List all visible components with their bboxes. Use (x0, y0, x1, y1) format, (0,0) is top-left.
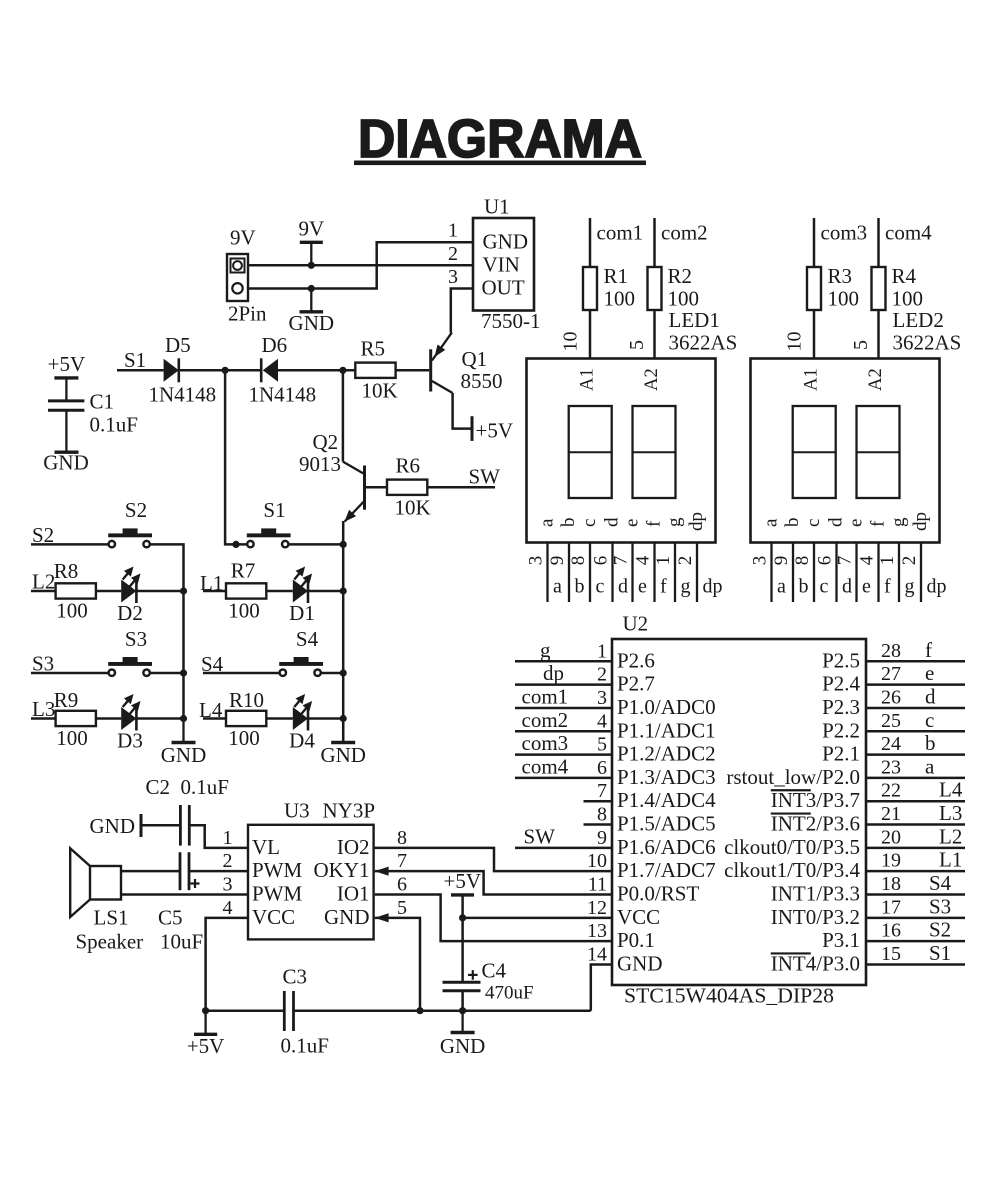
junction +5V rail left end (202, 1007, 209, 1014)
U2 right pin wires (866, 661, 965, 964)
LED1 pin labels a b c d e f g dp (553, 576, 723, 598)
wire R10 to D4 (266, 717, 293, 720)
wire R1 to pin10 (589, 310, 592, 359)
LED1 digit 2 (633, 406, 676, 498)
svg-text:D3: D3 (117, 729, 143, 753)
wire R8 to D2 (96, 590, 121, 593)
svg-text:GND: GND (617, 951, 663, 975)
wire +5V rail left segment (206, 1009, 285, 1012)
LED1 segment letters inside (537, 512, 708, 531)
svg-text:R6: R6 (396, 454, 421, 478)
svg-text:dp: dp (686, 512, 707, 531)
diode D6 1N4148 (249, 333, 317, 407)
diode D5 1N4148 (149, 333, 217, 407)
svg-text:15: 15 (881, 943, 901, 965)
svg-text:3: 3 (526, 556, 547, 566)
wire U3 VCC pin4 to +5V rail (206, 918, 248, 1011)
svg-text:LED2: LED2 (893, 308, 944, 332)
svg-text:20: 20 (881, 826, 901, 848)
svg-text:3622AS: 3622AS (893, 331, 962, 355)
svg-text:R2: R2 (668, 264, 693, 288)
svg-text:c: c (803, 519, 824, 527)
svg-text:A1: A1 (578, 368, 598, 391)
power +5V bottom left (187, 1011, 225, 1058)
wire S3 to button (31, 672, 109, 675)
junction 9V node (308, 262, 315, 269)
svg-text:10K: 10K (395, 496, 431, 520)
svg-text:14: 14 (587, 943, 607, 965)
svg-text:D4: D4 (289, 729, 315, 753)
wire R6 to SW (427, 486, 495, 489)
resistor R9 100 (54, 688, 96, 750)
transistor Q2 9013 (299, 430, 366, 522)
svg-text:5: 5 (850, 340, 872, 350)
svg-text:8: 8 (568, 556, 589, 566)
junction node D5-D6 (222, 367, 229, 374)
svg-text:PWM: PWM (252, 858, 303, 882)
svg-text:P2.1: P2.1 (822, 742, 860, 766)
svg-text:PWM: PWM (252, 882, 303, 906)
svg-text:6: 6 (815, 556, 836, 566)
svg-text:100: 100 (604, 287, 636, 311)
svg-text:P1.2/ADC2: P1.2/ADC2 (617, 742, 716, 766)
svg-text:C2: C2 (146, 775, 171, 799)
wire L1 to R7 (203, 590, 226, 593)
svg-text:26: 26 (881, 686, 901, 708)
svg-text:8550: 8550 (461, 369, 503, 393)
svg-text:1: 1 (877, 556, 898, 566)
wire R3 to pin10 (813, 310, 816, 359)
svg-text:b: b (925, 731, 936, 755)
svg-text:d: d (602, 517, 623, 527)
svg-text:470uF: 470uF (485, 983, 534, 1004)
junction U3 GND at rail (416, 1007, 423, 1014)
svg-text:A1: A1 (802, 368, 822, 391)
wire S3 button to bus (150, 672, 184, 675)
svg-text:5: 5 (626, 340, 648, 350)
svg-text:3: 3 (597, 687, 607, 709)
svg-text:C4: C4 (482, 959, 507, 983)
wire D5 node down to S1 button (225, 370, 247, 544)
svg-text:19: 19 (881, 850, 901, 872)
svg-text:1: 1 (597, 640, 607, 662)
U3 pin7 input arrow (375, 867, 389, 876)
wire D3 to bus (136, 717, 183, 720)
svg-text:LS1: LS1 (94, 906, 129, 930)
svg-text:S2: S2 (929, 918, 951, 942)
U3 right pin numbers 8 7 6 5 (397, 827, 407, 919)
svg-text:C1: C1 (90, 390, 115, 414)
wire R7 to D1 (266, 590, 293, 593)
switch S4 (279, 627, 323, 676)
U2 right pin numbers (881, 640, 901, 965)
svg-text:Q1: Q1 (462, 347, 488, 371)
LED2 segment letters inside (761, 512, 932, 531)
svg-text:g: g (905, 576, 915, 598)
svg-text:22: 22 (881, 780, 901, 802)
svg-text:1N4148: 1N4148 (249, 383, 317, 407)
svg-text:L2: L2 (32, 569, 55, 593)
wire rail to U2 GND pin14 (591, 964, 612, 1010)
svg-text:D2: D2 (117, 601, 143, 625)
svg-text:L1: L1 (939, 848, 962, 872)
svg-text:+5V: +5V (187, 1034, 225, 1058)
svg-text:4: 4 (857, 555, 878, 565)
junction VCC +5V (459, 914, 466, 921)
svg-text:b: b (782, 518, 803, 528)
junction L3 bus (180, 715, 187, 722)
svg-text:25: 25 (881, 710, 901, 732)
wire D6 node down to Q2 collector (342, 370, 345, 461)
svg-text:P2.5: P2.5 (822, 648, 860, 672)
svg-text:a: a (761, 518, 782, 527)
power +5V at U2 VCC (444, 869, 482, 895)
junction L1 bus (340, 587, 347, 594)
svg-text:Q2: Q2 (313, 430, 339, 454)
resistor R8 100 (54, 559, 96, 623)
svg-text:VL: VL (252, 835, 280, 859)
junction GND node (308, 285, 315, 292)
svg-text:OKY1: OKY1 (314, 858, 370, 882)
svg-text:f: f (644, 520, 665, 527)
svg-text:1: 1 (653, 556, 674, 566)
svg-text:100: 100 (892, 287, 924, 311)
svg-text:com2: com2 (522, 708, 569, 732)
wire Q1 collector to +5V (453, 393, 471, 429)
svg-text:4: 4 (223, 897, 233, 919)
wire 9V connector to U1 VIN (248, 264, 473, 267)
svg-text:c: c (925, 708, 934, 732)
capacitor C1 0.1uF (48, 390, 138, 453)
svg-text:U1: U1 (484, 195, 510, 219)
svg-text:1: 1 (223, 827, 233, 849)
svg-text:7: 7 (611, 556, 632, 566)
svg-text:INT2/P3.6: INT2/P3.6 (771, 812, 860, 836)
svg-text:9V: 9V (230, 226, 256, 250)
MCU U2 STC15W404AS_DIP28 body (612, 612, 866, 1008)
svg-text:clkout0/T0/P3.5: clkout0/T0/P3.5 (724, 835, 860, 859)
svg-text:S1: S1 (929, 941, 951, 965)
svg-text:S4: S4 (296, 627, 319, 651)
U2 INT overlines (771, 790, 811, 953)
wire L2 to R8 (31, 590, 56, 593)
svg-text:com4: com4 (885, 221, 932, 245)
LED D4 (289, 694, 315, 753)
wire C2 to U3 VL pin1 (189, 825, 248, 848)
svg-text:9: 9 (597, 827, 607, 849)
svg-text:R3: R3 (828, 264, 853, 288)
wire L4 to R10 (203, 717, 226, 720)
svg-text:INT1/P3.3: INT1/P3.3 (771, 882, 860, 906)
svg-text:P2.3: P2.3 (822, 695, 860, 719)
wire U2 pin2 net dp (515, 683, 612, 686)
wire U2 pin4 net com2 (515, 730, 612, 733)
svg-text:f: f (868, 520, 889, 527)
svg-text:10uF: 10uF (160, 930, 203, 954)
svg-text:100: 100 (828, 287, 860, 311)
svg-text:a: a (777, 576, 786, 598)
U2 right net labels (925, 638, 963, 965)
U3 right pin names (314, 835, 370, 929)
svg-text:g: g (888, 517, 909, 527)
svg-text:P1.1/ADC1: P1.1/ADC1 (617, 718, 716, 742)
svg-text:dp: dp (543, 661, 564, 685)
wire L3 to R9 (31, 717, 56, 720)
U3 left pin numbers 1 2 3 4 (223, 827, 233, 919)
svg-text:D5: D5 (165, 333, 191, 357)
capacitor C3 0.1uF (281, 965, 329, 1058)
U3 left pin names (252, 835, 303, 929)
svg-text:P1.7/ADC7: P1.7/ADC7 (617, 858, 716, 882)
svg-text:d: d (618, 576, 628, 598)
svg-text:d: d (925, 684, 936, 708)
svg-text:com4: com4 (522, 754, 569, 778)
LED D1 (289, 567, 315, 626)
resistor R4 100 (872, 264, 924, 311)
svg-text:9013: 9013 (299, 452, 341, 476)
ground GND under connector (289, 289, 335, 336)
wire R2 to pin5 (653, 310, 656, 359)
svg-text:e: e (622, 519, 643, 527)
resistor R3 100 (807, 264, 859, 311)
svg-text:e: e (846, 519, 867, 527)
svg-text:VIN: VIN (483, 253, 520, 277)
ground GND bottom (440, 1011, 486, 1058)
svg-text:Speaker: Speaker (76, 930, 144, 954)
wire U2 VCC pin12 (463, 917, 612, 920)
LED D2 (117, 567, 143, 626)
junction L2 bus (180, 587, 187, 594)
wire speaker to C5 (121, 870, 180, 873)
svg-text:GND: GND (289, 311, 335, 335)
svg-text:D1: D1 (289, 601, 315, 625)
svg-text:18: 18 (881, 873, 901, 895)
svg-text:10: 10 (587, 850, 607, 872)
label LED1 3622AS (669, 308, 738, 355)
wire R9 to D3 (96, 717, 121, 720)
wire connector GND to U1 pin1 (248, 242, 473, 288)
svg-text:+5V: +5V (444, 869, 482, 893)
wire D1 to bus (308, 590, 343, 593)
wire C4 to rail (461, 991, 464, 1011)
svg-text:12: 12 (587, 897, 607, 919)
wire S1 button to bus (288, 543, 343, 546)
svg-text:IO2: IO2 (337, 835, 370, 859)
svg-text:R8: R8 (54, 559, 79, 583)
svg-text:P2.2: P2.2 (822, 718, 860, 742)
wire U2 pin1 net g (515, 660, 612, 663)
svg-text:g: g (664, 517, 685, 527)
svg-text:VCC: VCC (617, 905, 660, 929)
svg-text:GND: GND (161, 743, 207, 767)
svg-text:g: g (681, 576, 691, 598)
svg-text:INT3/P3.7: INT3/P3.7 (771, 788, 860, 812)
svg-text:5: 5 (597, 734, 607, 756)
U2 right pin names (724, 648, 860, 975)
svg-text:P1.3/ADC3: P1.3/ADC3 (617, 765, 716, 789)
wire U2 pin9 SW (515, 847, 612, 850)
svg-text:d: d (826, 517, 847, 527)
display LED1 body (527, 359, 716, 543)
wire U2 pin3 net com1 (515, 707, 612, 710)
LED1 pin numbers 3 9 8 6 7 4 1 2 (526, 555, 697, 565)
svg-text:S1: S1 (124, 348, 146, 372)
svg-text:0.1uF: 0.1uF (281, 1034, 329, 1058)
wire +5V stem to C4 (461, 895, 464, 982)
svg-text:1: 1 (448, 220, 458, 242)
svg-text:L3: L3 (32, 697, 55, 721)
svg-text:S4: S4 (929, 871, 952, 895)
resistor R7 100 (226, 559, 266, 623)
svg-text:VCC: VCC (252, 905, 295, 929)
svg-text:d: d (842, 576, 852, 598)
title DIAGRAMA (354, 109, 646, 169)
svg-text:9: 9 (547, 556, 568, 566)
LED1 digit 1 (569, 406, 612, 498)
U2 left pin names (617, 648, 716, 975)
svg-text:100: 100 (56, 599, 88, 623)
svg-text:7: 7 (835, 556, 856, 566)
svg-text:D6: D6 (262, 333, 288, 357)
svg-text:GND: GND (483, 229, 529, 253)
svg-text:8: 8 (792, 556, 813, 566)
svg-text:11: 11 (588, 874, 607, 896)
resistor R5 10K (355, 337, 397, 403)
svg-text:9: 9 (771, 556, 792, 566)
LED2 digit 2 (857, 406, 900, 498)
svg-text:100: 100 (668, 287, 700, 311)
ground GND under C1 (43, 451, 89, 475)
svg-text:P0.0/RST: P0.0/RST (617, 882, 699, 906)
wire C5 to U3 PWM pin2 (189, 870, 248, 873)
wire U3 IO2 to U2 pin10 (374, 848, 612, 871)
svg-text:b: b (558, 518, 579, 528)
U3 pin5 input arrow (375, 913, 389, 922)
svg-text:S2: S2 (125, 498, 147, 522)
transistor Q1 8550 (429, 333, 502, 393)
LED2 segment pins (772, 543, 922, 603)
svg-text:2: 2 (675, 556, 696, 566)
svg-text:0.1uF: 0.1uF (181, 775, 229, 799)
svg-text:a: a (553, 576, 562, 598)
wire S2 button to bus (150, 544, 184, 591)
ground GND left matrix (161, 719, 207, 768)
junction C4 at rail (459, 1007, 466, 1014)
switch S1 (247, 498, 291, 547)
wire Q2 emitter bus (342, 521, 345, 743)
svg-text:INT4/P3.0: INT4/P3.0 (771, 951, 860, 975)
svg-text:com3: com3 (821, 221, 868, 245)
svg-text:e: e (925, 661, 934, 685)
svg-text:C5: C5 (158, 906, 183, 930)
label LED2 3622AS (893, 308, 962, 355)
svg-text:S1: S1 (263, 498, 285, 522)
svg-text:GND: GND (90, 814, 136, 838)
svg-text:SW: SW (469, 465, 501, 489)
U2 pin8 stub (584, 823, 613, 826)
wire com3 to R3 (813, 218, 816, 267)
svg-text:e: e (862, 576, 871, 598)
svg-text:e: e (638, 576, 647, 598)
U2 left pin numbers (587, 640, 607, 965)
svg-text:9V: 9V (298, 216, 324, 240)
svg-text:c: c (820, 576, 829, 598)
junction L4 bus (340, 715, 347, 722)
wire U2 pin6 net com4 (515, 777, 612, 780)
svg-text:com3: com3 (522, 731, 569, 755)
svg-text:R7: R7 (231, 559, 256, 583)
svg-text:100: 100 (228, 599, 260, 623)
svg-text:dp: dp (927, 576, 947, 598)
svg-text:dp: dp (703, 576, 723, 598)
svg-text:L2: L2 (939, 824, 962, 848)
wire U2 pin5 net com3 (515, 753, 612, 756)
svg-text:3: 3 (750, 556, 771, 566)
wire U1 OUT to Q1 emitter (451, 289, 473, 333)
svg-text:5: 5 (397, 897, 407, 919)
svg-text:P2.7: P2.7 (617, 672, 655, 696)
svg-text:dp: dp (910, 512, 931, 531)
svg-text:R9: R9 (54, 688, 79, 712)
LED2 pin numbers 3 9 8 6 7 4 1 2 (750, 555, 921, 565)
svg-text:S3: S3 (125, 627, 147, 651)
svg-text:2: 2 (448, 243, 458, 265)
wire D6 to R5 (278, 369, 355, 372)
svg-text:GND: GND (324, 905, 370, 929)
switch S2 (108, 498, 152, 547)
power 9V symbol (298, 216, 324, 265)
wire com4 to R4 (877, 218, 880, 267)
svg-text:P1.6/ADC6: P1.6/ADC6 (617, 835, 716, 859)
svg-text:+5V: +5V (48, 352, 86, 376)
svg-text:S3: S3 (929, 894, 951, 918)
svg-text:OUT: OUT (482, 276, 525, 300)
svg-text:c: c (579, 519, 600, 527)
wire R5 to Q1 base (396, 369, 430, 372)
ground GND right matrix (320, 719, 366, 768)
wire speaker to U3 PWM pin3 (121, 893, 248, 896)
junction S1 bus (340, 541, 347, 548)
svg-text:6: 6 (397, 874, 407, 896)
capacitor C4 470uF polarized (443, 959, 534, 1004)
svg-text:A2: A2 (642, 368, 662, 391)
resistor R2 100 (648, 264, 700, 311)
svg-text:7: 7 (597, 780, 607, 802)
svg-text:23: 23 (881, 756, 901, 778)
wire D5 to D6 (179, 369, 261, 372)
svg-text:10: 10 (560, 332, 582, 352)
svg-text:P2.6: P2.6 (617, 648, 655, 672)
svg-text:IO1: IO1 (337, 882, 370, 906)
power +5V above C1 (48, 352, 86, 401)
LED1 segment pins (548, 543, 698, 603)
svg-text:27: 27 (881, 663, 901, 685)
svg-text:L3: L3 (939, 801, 962, 825)
svg-text:com1: com1 (597, 221, 644, 245)
svg-text:com1: com1 (522, 684, 569, 708)
svg-text:P1.5/ADC5: P1.5/ADC5 (617, 812, 716, 836)
svg-text:28: 28 (881, 640, 901, 662)
svg-text:GND: GND (320, 743, 366, 767)
svg-text:R4: R4 (892, 264, 917, 288)
speaker LS1 (70, 848, 143, 953)
wire com2 to R2 (653, 218, 656, 267)
wire Q2 base to R6 (366, 486, 387, 489)
svg-text:2: 2 (223, 850, 233, 872)
junction node base Q1 (339, 367, 346, 374)
wire R4 to pin5 (877, 310, 880, 359)
svg-text:NY3P: NY3P (323, 799, 376, 823)
